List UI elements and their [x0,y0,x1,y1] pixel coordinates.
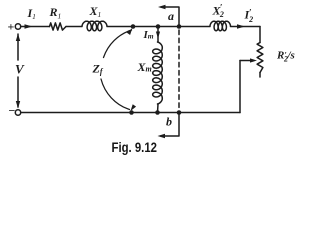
wire R1 to X1 [66,26,82,28]
resistor bottom stub [259,73,261,78]
wire X2 to corner [231,26,261,28]
wire X1 to X2 [107,26,210,28]
svg-text:a: a [168,9,174,23]
node dot Xm top [156,24,161,29]
terminal plus circle [15,24,20,29]
node dot Zf bottom [129,110,134,115]
arrowhead rheostat right [250,58,257,62]
svg-text:Im: Im [143,29,154,41]
resistor R1 [50,23,67,30]
svg-text:b: b [166,115,172,129]
rheostat wiper wire [240,60,252,62]
node a dot [177,24,182,29]
svg-text:X′2: X′2 [212,3,224,20]
wire bottom [21,112,240,114]
inductor X2' [210,21,231,31]
svg-text:R′2/s: R′2/s [276,50,295,64]
terminal minus circle [15,110,20,115]
resistor R2'/s [257,43,263,73]
arrowhead Im down [156,32,160,39]
voltage arrow lower segment [17,77,19,107]
terminal a marker wire [161,7,179,27]
arrowhead a left [158,5,166,9]
wire right riser [239,61,241,113]
Zf arc lower [101,79,130,110]
arrowhead I1 [25,24,33,29]
svg-text:−: − [9,104,16,118]
wire right vertical down to resistor [259,27,261,43]
node b dot [177,110,182,115]
inductor Xm [153,42,163,104]
wire Xm branch bottom lead [157,104,160,113]
arrowhead Zf bottom [131,104,137,111]
Zf arc upper [104,30,132,58]
svg-text:V: V [15,61,25,76]
arrowhead V up [16,34,20,42]
svg-text:+: + [8,20,15,34]
inductor X1 [82,21,107,31]
arrowhead Zf top [127,28,133,35]
arrowhead I2' [237,24,245,29]
arrowhead V down [16,101,20,109]
voltage arrow upper segment [17,34,19,60]
wire Xm branch top lead [157,27,159,43]
node dot Xm bottom [155,110,160,115]
arrowhead b left [158,134,166,138]
svg-text:Fig. 9.12: Fig. 9.12 [112,140,158,155]
terminal b marker wire [161,113,180,137]
node dot Zf top [131,24,136,29]
wire top left segment [21,26,50,28]
dashed line a-b [178,30,180,109]
